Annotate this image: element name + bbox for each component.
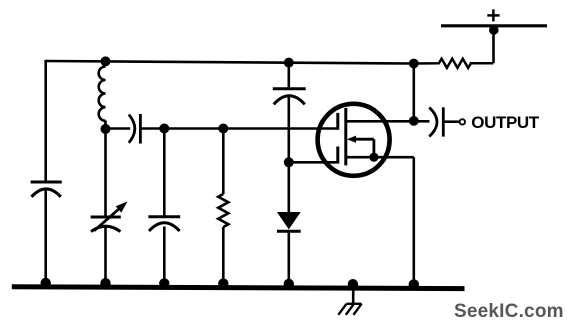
svg-text:SeekIC.com: SeekIC.com — [454, 301, 564, 322]
svg-text:OUTPUT: OUTPUT — [471, 113, 540, 132]
